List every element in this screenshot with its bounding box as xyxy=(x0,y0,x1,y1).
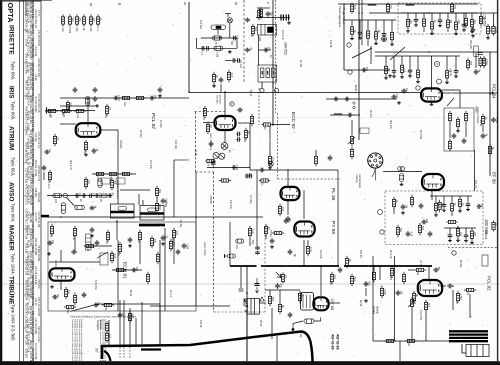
svg-text:Fernsehwerk: Fernsehwerk xyxy=(358,174,361,189)
capacitor sound C23 xyxy=(206,46,210,51)
wire V5 up xyxy=(60,250,62,262)
capacitor C83 xyxy=(232,165,237,170)
wire osc top row xyxy=(47,195,112,197)
IF amp ladder xyxy=(380,56,460,84)
svg-text:220: 220 xyxy=(409,20,412,25)
svg-text:1M: 1M xyxy=(105,240,108,243)
wire osc v1 xyxy=(74,238,76,252)
resistor R100 xyxy=(107,172,119,175)
junction dots xyxy=(188,91,190,93)
switch arrow dy xyxy=(276,272,282,278)
tuner resistor R51 xyxy=(450,2,453,13)
svg-text:Fernseh-Empf.: Fernseh-Empf. xyxy=(24,1,27,17)
capacitor neck C192 xyxy=(288,312,293,318)
wire y304 link xyxy=(98,303,160,305)
tube V9 PCL82 frame xyxy=(418,280,442,296)
svg-text:ECH 81: ECH 81 xyxy=(122,262,128,279)
svg-text:10n: 10n xyxy=(108,334,111,339)
svg-text:C2 0,1 R19 12k R19 12k: C2 0,1 R19 12k R19 12k xyxy=(31,188,34,216)
svg-text:R8 1,2M R8 1,2M: R8 1,2M R8 1,2M xyxy=(34,10,37,29)
svg-text:500: 500 xyxy=(135,267,138,272)
svg-text:10n: 10n xyxy=(131,314,134,319)
module resistor R166 xyxy=(410,195,413,207)
bank resistor R6 xyxy=(96,14,99,26)
svg-text:100: 100 xyxy=(457,20,460,25)
resistor osc R128 xyxy=(172,228,175,240)
wire right horizontal y52 xyxy=(375,51,497,53)
dark capacitor ifm b xyxy=(286,15,288,21)
wire can to bus xyxy=(217,30,219,35)
wire boost bus segment 3 xyxy=(344,265,432,267)
svg-text:220 25: 220 25 xyxy=(359,250,362,258)
resistor R98 xyxy=(53,134,56,146)
svg-text:R8 1,2M: R8 1,2M xyxy=(37,279,40,288)
resistor rc R261 xyxy=(481,114,484,126)
tuner ladder A xyxy=(344,20,396,46)
svg-text:R15 820 R5 56k R15 820: R15 820 R5 56k R15 820 xyxy=(31,63,34,92)
terminal M xyxy=(347,43,351,47)
svg-text:47k 1k: 47k 1k xyxy=(199,320,202,328)
wire V3 out right xyxy=(442,89,460,91)
wire dashed horizontal y179 xyxy=(278,178,341,180)
scan border bottom edge xyxy=(0,361,500,365)
svg-text:100: 100 xyxy=(113,254,116,259)
svg-text:R8 1,2M: R8 1,2M xyxy=(31,174,34,183)
wire fr link xyxy=(365,288,367,296)
svg-text:2n 47k: 2n 47k xyxy=(369,110,372,118)
wire boost drop1 xyxy=(307,240,309,244)
module capacitor C165 xyxy=(401,204,406,210)
tube V5 ECH81 oscillator xyxy=(50,268,75,280)
capacitor osc C123 xyxy=(71,250,77,255)
svg-text:R12 4,7k R12 4,7k R12 4,7k: R12 4,7k R12 4,7k R12 4,7k xyxy=(31,311,34,343)
bank resistor R3 xyxy=(75,14,78,26)
pot wiper diagonal V3 xyxy=(447,98,454,106)
resistor grid R64 xyxy=(261,123,272,126)
svg-text:100 30p: 100 30p xyxy=(199,20,202,30)
output transformer box xyxy=(245,298,259,314)
resistor R92 xyxy=(60,109,72,112)
wire vertical x338 xyxy=(337,170,339,266)
wire sound bus y38 xyxy=(201,37,237,39)
svg-text:25 25: 25 25 xyxy=(259,320,262,327)
svg-text:1M: 1M xyxy=(395,94,398,97)
capacitor osc C124 xyxy=(128,237,133,243)
svg-text:500: 500 xyxy=(66,309,69,314)
tuner resistor R50 xyxy=(386,2,389,13)
svg-text:0,5M 5k: 0,5M 5k xyxy=(209,195,212,205)
ground re 1 xyxy=(471,34,475,37)
resistor crt R191 xyxy=(105,321,108,333)
resistor re R211 xyxy=(464,16,467,28)
svg-text:0,1: 0,1 xyxy=(49,234,52,238)
capacitor C84a xyxy=(236,132,240,137)
resistor neck R196 xyxy=(298,291,301,303)
resistor frame R171 xyxy=(390,266,393,278)
svg-text:PY 88: PY 88 xyxy=(330,221,336,234)
ifm coil box xyxy=(258,25,277,36)
capacitor re C211 xyxy=(471,27,476,33)
svg-text:0,1: 0,1 xyxy=(108,107,111,111)
svg-text:10n: 10n xyxy=(270,12,273,17)
wire V1 grid xyxy=(60,123,76,125)
resistor R101 xyxy=(120,172,132,175)
resistor lc R271 xyxy=(48,170,51,182)
ground near C98 xyxy=(95,104,99,107)
resistor ifm R31 xyxy=(259,7,262,18)
wire vertical x273 xyxy=(272,0,274,126)
wire tuner diag switch 2 xyxy=(390,47,405,60)
resistor R102 xyxy=(66,100,69,111)
antenna tee symbol xyxy=(225,14,231,18)
svg-text:100: 100 xyxy=(413,300,416,305)
yoke plug box xyxy=(466,345,489,357)
wire tuner drop x371 xyxy=(370,46,372,64)
capacitor osc C133 xyxy=(93,303,99,308)
wire V2 below xyxy=(224,131,226,143)
resistor fb R182 xyxy=(405,339,417,342)
svg-text:R12 4,7k R18 390: R12 4,7k R18 390 xyxy=(37,297,40,317)
svg-text:C4 5n R14 3,3k: C4 5n R14 3,3k xyxy=(31,1,34,19)
bank top tick marks xyxy=(90,3,92,6)
svg-text:R17 220 R5 56k: R17 220 R5 56k xyxy=(31,149,34,168)
resistor frame R174 xyxy=(456,291,459,303)
wire lower crossing horizontal y217 xyxy=(42,216,263,218)
bank resistor R4 xyxy=(82,14,85,26)
arrow down snd xyxy=(255,287,258,293)
capacitor C112c xyxy=(95,193,99,198)
terminal F xyxy=(230,102,234,106)
svg-text:0,5M: 0,5M xyxy=(459,294,462,300)
crt gun line 4 xyxy=(129,308,131,345)
dashed module box 182-552 xyxy=(385,191,483,245)
terminal circle-X xyxy=(268,161,273,166)
svg-text:100: 100 xyxy=(92,18,95,23)
coil can box 2 xyxy=(140,206,164,221)
svg-text:MAGIER: MAGIER xyxy=(8,225,15,251)
svg-text:30p 47k: 30p 47k xyxy=(389,120,392,130)
svg-text:38,9 MHz: 38,9 MHz xyxy=(216,95,218,104)
wire pot chain xyxy=(351,120,353,134)
resistor fb R181 xyxy=(384,339,396,342)
resistor re R213 xyxy=(486,24,489,36)
svg-text:R18 390 R30 2,2k R30 2,2k: R18 390 R30 2,2k R30 2,2k xyxy=(31,275,34,307)
wire fr out xyxy=(408,269,414,271)
wire V1 up xyxy=(87,98,89,123)
svg-text:47k 47k: 47k 47k xyxy=(229,200,232,210)
wire snd x250b xyxy=(249,238,251,246)
tube V3 PCL84 video xyxy=(421,88,442,101)
wire yoke vertical x272 xyxy=(271,308,273,339)
wire IF y56 left xyxy=(375,55,380,57)
wire dashed x259 xyxy=(258,88,260,125)
wire bus top-left horizontal xyxy=(189,92,421,94)
capacitor sound C22 xyxy=(201,46,205,51)
wire EHT out xyxy=(329,302,340,304)
svg-text:0,5M: 0,5M xyxy=(98,193,101,199)
ground osc 2 xyxy=(128,244,132,247)
resistor snd R142 xyxy=(248,226,251,238)
resistor fr R243 xyxy=(414,268,426,271)
svg-text:220 220: 220 220 xyxy=(469,40,472,50)
svg-text:10n: 10n xyxy=(67,290,70,295)
capacitor C52 xyxy=(391,95,397,100)
wire vertical main left xyxy=(188,2,190,92)
resistor st R281 xyxy=(212,72,215,84)
resistor edge R302 xyxy=(492,220,495,231)
crt gun line 2 xyxy=(119,300,121,345)
tuner dashed-box ladder xyxy=(401,13,478,35)
svg-text:Gedr. Platte: Gedr. Platte xyxy=(203,242,207,256)
svg-text:500: 500 xyxy=(389,276,392,281)
wire coil to bus xyxy=(229,23,231,38)
trimmer box osc xyxy=(100,253,108,265)
box det 2 xyxy=(116,178,125,184)
resistor sound R27 xyxy=(257,8,260,20)
arrow PCL84 xyxy=(490,92,494,94)
IF resistor R59 xyxy=(482,56,485,68)
resistor R99 xyxy=(94,172,106,175)
svg-text:30p: 30p xyxy=(399,228,402,233)
svg-text:Ablenk.: Ablenk. xyxy=(376,306,379,315)
svg-text:5k 8p: 5k 8p xyxy=(354,85,357,92)
tube V4 EF80 partial xyxy=(422,174,444,190)
resistor rc R262 xyxy=(488,144,491,156)
switch symbol near transformer xyxy=(244,299,248,307)
svg-text:C14 25 R5 56k: C14 25 R5 56k xyxy=(34,318,37,335)
resistor sound R26 xyxy=(251,24,254,36)
crt gun line 1 xyxy=(108,320,110,345)
wire osc vert x118 long xyxy=(117,240,119,311)
resistor EHT R155 xyxy=(330,272,333,284)
coil small double xyxy=(398,167,405,171)
pot arrow height xyxy=(408,300,415,307)
resistor R83 xyxy=(244,128,247,140)
wire dashed vertical x275 xyxy=(275,0,277,113)
flyback winding bar 1 xyxy=(449,330,488,332)
svg-text:100 4,7k: 100 4,7k xyxy=(281,30,284,40)
box det 1 xyxy=(101,178,110,184)
svg-text:Tastenaggregat: Tastenaggregat xyxy=(338,6,342,27)
resistor osc R122 xyxy=(73,226,76,238)
svg-text:0,1: 0,1 xyxy=(56,137,59,141)
svg-text:1M: 1M xyxy=(389,5,392,8)
svg-text:1n 500: 1n 500 xyxy=(159,120,162,128)
wire vertical x362 xyxy=(361,0,363,45)
resistor R81 xyxy=(203,106,206,118)
resistor dy R201 xyxy=(281,272,284,283)
picture tube envelope xyxy=(102,332,313,363)
tuner coil L42 xyxy=(406,5,414,6)
resistor col R311 xyxy=(155,186,158,198)
resistor R82 xyxy=(206,122,209,134)
oval resistor on bus 2 xyxy=(214,46,223,50)
svg-text:Type 660,: Type 660, xyxy=(11,61,16,80)
bank resistor R5 xyxy=(89,14,92,26)
sidebar row divider ticks xyxy=(24,29,34,31)
svg-text:1k 500: 1k 500 xyxy=(139,130,142,138)
capacitor dark C85 xyxy=(211,159,216,168)
coil can box 1 xyxy=(111,204,135,218)
svg-text:C14 25 C19 50: C14 25 C19 50 xyxy=(37,30,40,47)
ground IF amp 1 xyxy=(397,101,401,104)
svg-text:1M: 1M xyxy=(400,291,403,294)
svg-text:100: 100 xyxy=(333,275,336,280)
capacitor C92 xyxy=(93,96,98,102)
module capacitor C169 xyxy=(421,220,427,225)
tee cap right xyxy=(478,53,484,55)
wire y106 link xyxy=(60,105,95,107)
wire edge drop xyxy=(493,13,495,26)
svg-text:5k 0,5M: 5k 0,5M xyxy=(419,130,422,139)
svg-text:220: 220 xyxy=(83,150,86,155)
wire pots link xyxy=(411,309,413,341)
svg-text:1M 1k: 1M 1k xyxy=(269,230,272,238)
svg-text:Type 660,: Type 660, xyxy=(11,101,16,120)
scan border right edge xyxy=(497,0,499,361)
svg-text:C14 25: C14 25 xyxy=(34,298,37,306)
svg-text:DY 86: DY 86 xyxy=(330,299,335,311)
resistor osc R121 xyxy=(50,224,53,236)
svg-text:0,1: 0,1 xyxy=(200,52,203,56)
resistor osc R134 xyxy=(64,305,76,308)
tuning slug box xyxy=(86,234,92,250)
resistor R97 xyxy=(84,140,87,152)
picture tube face corner curl xyxy=(104,351,111,361)
ground ifm right xyxy=(287,21,291,24)
ground le xyxy=(270,245,274,248)
resistor osc R129 xyxy=(156,252,159,264)
svg-text:PL 36: PL 36 xyxy=(330,188,336,201)
wire dashed x244 xyxy=(243,0,245,82)
wire R151 up xyxy=(315,150,317,154)
resistor R93 xyxy=(74,109,86,112)
svg-text:IRIS: IRIS xyxy=(8,86,15,99)
svg-text:Type 664,: Type 664, xyxy=(11,203,16,222)
terminal module C xyxy=(380,230,384,234)
capacitor EHT C156 xyxy=(338,267,343,273)
oval resistor vert row M xyxy=(98,179,102,188)
svg-text:Gedr. Schaltung: Gedr. Schaltung xyxy=(209,133,212,151)
switch diagonal osc xyxy=(97,252,108,258)
svg-text:C7 1n: C7 1n xyxy=(37,10,40,17)
svg-text:C2 0,1 C13 30p: C2 0,1 C13 30p xyxy=(34,343,37,360)
coil circle symbol xyxy=(227,18,232,23)
ground osc 1 xyxy=(90,234,94,237)
resistor R113b xyxy=(110,178,113,190)
svg-text:PCL 82: PCL 82 xyxy=(150,113,156,129)
flyback winding bar 3 xyxy=(449,337,488,339)
svg-text:220: 220 xyxy=(258,37,261,42)
wire fr v1 xyxy=(373,266,375,270)
oval resistor snd 2 xyxy=(225,254,236,258)
svg-text:4,7k: 4,7k xyxy=(489,27,492,32)
wire sound bus y48 xyxy=(196,47,237,49)
capacitor C62 xyxy=(344,97,350,102)
wire sound corner xyxy=(195,38,197,48)
wire vert x400 bottom xyxy=(399,341,401,361)
module resistor R165 xyxy=(392,197,395,209)
capacitor C82 xyxy=(237,108,243,113)
wire V1 plate right xyxy=(100,129,118,131)
resistor R113a xyxy=(84,177,87,189)
svg-text:Type 1664,: Type 1664, xyxy=(11,253,16,275)
svg-text:C30 10n R9 680: C30 10n R9 680 xyxy=(34,238,37,256)
wire snd x241 down xyxy=(240,267,242,288)
capacitor C94 xyxy=(149,96,155,101)
oval resistor row M xyxy=(53,194,62,198)
terminal antenna G xyxy=(381,36,386,41)
resistor re R212 xyxy=(479,14,482,26)
capacitor osc C134 xyxy=(176,249,181,255)
svg-text:100 10n: 100 10n xyxy=(174,140,177,150)
svg-text:0,1: 0,1 xyxy=(96,28,99,32)
svg-text:C9 8p C2 0,1 R1 10k: C9 8p C2 0,1 R1 10k xyxy=(31,109,34,133)
wire right top horizontal y13 xyxy=(369,12,497,14)
svg-text:R15 820 C4 5n: R15 820 C4 5n xyxy=(37,165,40,182)
svg-text:C12 40n C2 0,1: C12 40n C2 0,1 xyxy=(37,132,40,149)
wire vertical x344 xyxy=(343,4,345,70)
wire vert x118b xyxy=(117,182,119,204)
capacitor right of dash C29 xyxy=(245,48,250,53)
transistor Q2 sound xyxy=(213,152,219,158)
svg-text:EF 80: EF 80 xyxy=(492,172,497,184)
resistor R96 xyxy=(134,96,146,99)
wire osc v2 xyxy=(139,242,141,264)
ifm lower box xyxy=(258,65,277,82)
wire V3 up xyxy=(431,56,433,88)
svg-text:1M: 1M xyxy=(175,231,178,234)
anode resistor oval xyxy=(304,319,314,323)
transistor junction row M xyxy=(63,193,67,197)
anode lead right xyxy=(314,318,321,322)
capacitor osc C126 xyxy=(182,243,187,249)
svg-text:1k 1M: 1k 1M xyxy=(164,200,167,207)
svg-text:0,5M 25: 0,5M 25 xyxy=(484,230,487,240)
wire vert x394 bottom xyxy=(394,256,396,341)
wire ifm y17 xyxy=(256,17,290,19)
wire tuner top horizontal y4 xyxy=(338,3,478,5)
wire V2 out right xyxy=(238,122,250,124)
module wire a xyxy=(393,209,395,215)
resistor R156 xyxy=(345,256,348,268)
svg-text:180-552: 180-552 xyxy=(284,42,288,55)
svg-text:0,1 30p: 0,1 30p xyxy=(249,195,252,204)
resistor neck R195 xyxy=(278,302,281,314)
svg-text:220: 220 xyxy=(469,61,472,66)
capacitor boost C155 xyxy=(288,249,293,255)
resistor R63 xyxy=(268,154,271,166)
wire y190 link xyxy=(120,189,150,191)
resistor osc R126 xyxy=(138,230,141,242)
ground socket coil xyxy=(400,183,404,186)
oval resistor socket xyxy=(399,174,403,182)
svg-text:10n: 10n xyxy=(78,193,81,198)
wire lc link xyxy=(43,172,45,180)
capacitor C51 xyxy=(401,89,407,94)
svg-text:100: 100 xyxy=(230,73,233,78)
svg-text:1M: 1M xyxy=(480,204,483,207)
module capacitor C168 xyxy=(428,231,433,237)
wire PY88 link xyxy=(303,206,305,219)
module resistor R168 xyxy=(396,225,399,237)
anode button xyxy=(292,328,295,331)
ground re 2 xyxy=(486,36,490,39)
crt gun dashed 2 xyxy=(123,347,125,359)
svg-text:R21 1M L3 Ton: R21 1M L3 Ton xyxy=(37,326,40,343)
svg-text:0,5M: 0,5M xyxy=(68,28,71,34)
svg-text:1k 8p: 1k 8p xyxy=(194,150,197,157)
